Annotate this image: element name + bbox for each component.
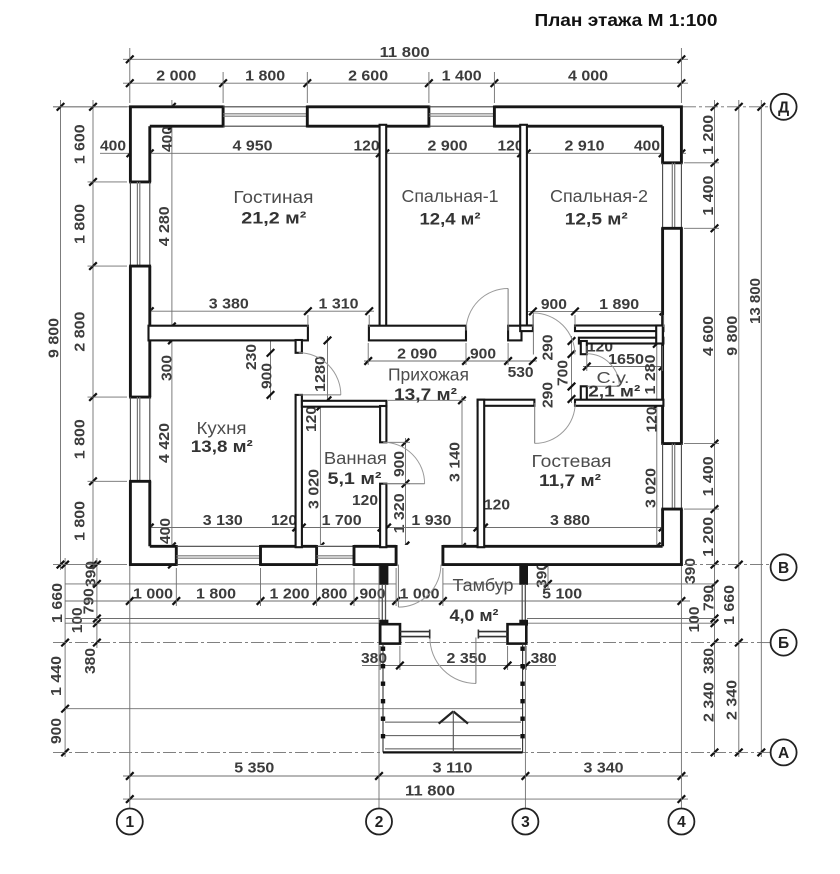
dimension column left below V 390/790/100/380 <box>69 558 101 674</box>
svg-text:1 660: 1 660 <box>721 585 738 625</box>
tambur front window left <box>400 630 430 639</box>
interior wall kitchen/living (thick 300) <box>149 326 308 341</box>
label 120 WC top wall <box>587 338 613 355</box>
svg-text:1: 1 <box>125 814 134 831</box>
dimension row rooms bottom 3130/120/1700/120/1930 3880 <box>145 512 666 531</box>
svg-text:Спальная-2: Спальная-2 <box>550 186 648 206</box>
interior wall hall/bedroom1 left piece <box>369 326 466 341</box>
interior wall bedroom1/bedroom2 <box>520 125 527 327</box>
svg-text:120: 120 <box>271 512 297 529</box>
svg-text:2 600: 2 600 <box>348 68 388 85</box>
tambur right wall window <box>522 584 525 620</box>
svg-text:1 800: 1 800 <box>196 585 236 602</box>
dimension row: overall width 11 800 <box>123 44 688 63</box>
svg-text:390: 390 <box>682 558 699 584</box>
dimension row bottom overall 11800 <box>123 782 688 803</box>
svg-text:400: 400 <box>100 138 126 155</box>
dimension column WC door 290/700/290 <box>540 335 576 409</box>
svg-text:1280: 1280 <box>312 356 329 392</box>
dimension column left outer 9800 <box>46 100 65 570</box>
svg-text:12,4 м²: 12,4 м² <box>420 209 481 228</box>
svg-text:1650: 1650 <box>608 351 644 368</box>
svg-text:1 000: 1 000 <box>133 585 173 602</box>
svg-text:1 930: 1 930 <box>411 512 451 529</box>
svg-text:Гостевая: Гостевая <box>532 451 612 471</box>
room label guest <box>532 451 612 490</box>
svg-text:Прихожая: Прихожая <box>388 365 469 385</box>
dimension column bathroom height 3020 <box>306 402 325 550</box>
svg-text:400: 400 <box>157 518 174 544</box>
svg-text:230: 230 <box>243 344 260 370</box>
svg-text:1 800: 1 800 <box>71 204 88 244</box>
interior wall bathroom right lower piece <box>380 484 386 548</box>
dimension column WC height 1280 <box>642 338 661 552</box>
svg-text:11,7 м²: 11,7 м² <box>539 471 601 490</box>
svg-text:700: 700 <box>555 360 572 386</box>
svg-text:2 800: 2 800 <box>71 312 88 352</box>
porch edge dashed left <box>381 644 385 753</box>
svg-text:4 600: 4 600 <box>700 316 717 356</box>
room label kitchen <box>191 418 253 456</box>
door WC (opens into WC) <box>587 354 620 387</box>
svg-text:Д: Д <box>778 99 789 116</box>
svg-text:9 800: 9 800 <box>46 318 63 358</box>
svg-text:5 350: 5 350 <box>234 759 274 776</box>
dimension column inner left 400/4280/300/4420/400 <box>156 100 176 568</box>
axis bubble 1 <box>117 809 143 835</box>
svg-text:21,2 м²: 21,2 м² <box>241 209 306 228</box>
svg-text:12,5 м²: 12,5 м² <box>565 209 628 228</box>
dimension row bedroom2 bottom 900/1890 <box>526 296 668 315</box>
svg-text:1 800: 1 800 <box>71 501 88 541</box>
interior wall bedroom2 bottom right piece <box>575 326 663 332</box>
svg-text:4 000: 4 000 <box>568 68 608 85</box>
svg-text:900: 900 <box>259 363 276 389</box>
svg-text:2 900: 2 900 <box>428 138 468 155</box>
svg-text:400: 400 <box>159 126 176 152</box>
window W2 top 1400 <box>429 107 495 126</box>
exterior top wall segment 1 <box>129 106 223 128</box>
axis bubble D <box>771 94 797 120</box>
svg-text:1 440: 1 440 <box>48 656 65 696</box>
dimension column right inner chain 1200/1400/4600/1400/1200 and below <box>682 100 718 757</box>
svg-text:380: 380 <box>531 650 557 667</box>
interior wall bathroom right upper piece <box>380 406 386 442</box>
exterior bottom wall segment 1 <box>129 545 176 566</box>
porch edge dashed right <box>520 644 524 753</box>
interior wall kitchen right lower piece <box>296 395 302 547</box>
axis line D horizontal <box>53 106 771 108</box>
svg-text:800: 800 <box>321 585 347 602</box>
tambur right wall lower piece <box>520 620 528 625</box>
svg-text:4 950: 4 950 <box>233 138 273 155</box>
wall white underlays <box>129 105 683 566</box>
exterior bottom wall segment 3 <box>354 545 396 566</box>
svg-text:300: 300 <box>159 355 176 381</box>
tambur left wall upper piece <box>380 564 388 584</box>
exterior bottom wall segment 2 <box>261 545 317 566</box>
dimension row WC width 1650 <box>583 351 666 370</box>
exterior left wall segment 2 <box>129 266 151 397</box>
door bathroom (opens right into hall) <box>383 442 424 483</box>
svg-text:План этажа М 1:100: План этажа М 1:100 <box>535 10 718 30</box>
svg-text:120: 120 <box>352 492 378 509</box>
window W7 bottom 1800 <box>176 546 260 564</box>
dimension column kitchen door 230/900 <box>243 338 276 400</box>
exterior left wall segment 1 <box>129 106 151 182</box>
title <box>535 10 718 30</box>
svg-text:Б: Б <box>778 635 789 652</box>
tambur front window right <box>478 630 507 639</box>
axis line V horizontal <box>53 564 771 566</box>
svg-text:100: 100 <box>69 607 86 633</box>
svg-text:В: В <box>778 560 789 577</box>
door bedroom1 (opens up into bedroom) <box>466 289 508 331</box>
svg-text:1 700: 1 700 <box>322 512 362 529</box>
svg-text:3 880: 3 880 <box>550 512 590 529</box>
svg-text:4,0 м²: 4,0 м² <box>450 606 499 625</box>
svg-text:900: 900 <box>360 585 386 602</box>
dimension column tambur right 390 <box>534 558 552 590</box>
svg-text:3 020: 3 020 <box>306 469 323 509</box>
svg-text:1 400: 1 400 <box>700 176 717 216</box>
dimension row: top window chain 2000/1800/2600/1400/4000 <box>123 68 688 87</box>
door hall to tambur (opens down into tambur) <box>398 565 441 608</box>
extension lines porch posts <box>380 646 526 670</box>
svg-text:3 020: 3 020 <box>643 468 660 508</box>
dimension column right overall 13800 <box>747 100 765 757</box>
dimension column hall width 1280 <box>312 336 331 404</box>
porch corner post right <box>508 624 527 643</box>
svg-text:1 400: 1 400 <box>700 456 717 496</box>
exterior top wall segment 3 <box>494 106 682 128</box>
svg-text:4 420: 4 420 <box>156 423 173 463</box>
vertical 400 wall thickness label top-left <box>159 126 176 152</box>
extension lines WC width <box>587 346 663 371</box>
interior wall kitchen right upper piece <box>296 340 302 353</box>
interior wall guest top left piece <box>478 400 535 406</box>
interior wall guest left <box>478 400 485 548</box>
axis bubble V <box>771 554 797 580</box>
axis line 4 vertical <box>680 566 682 808</box>
svg-text:900: 900 <box>391 451 408 477</box>
svg-text:Ванная: Ванная <box>324 448 387 468</box>
entrance direction arrow <box>439 711 468 752</box>
porch corner post left <box>380 624 400 643</box>
svg-text:1 890: 1 890 <box>599 296 639 313</box>
svg-text:11 800: 11 800 <box>380 44 430 61</box>
tambur left wall lower piece <box>380 620 388 625</box>
svg-text:9 800: 9 800 <box>724 316 741 356</box>
svg-text:120: 120 <box>354 138 380 155</box>
svg-text:380: 380 <box>82 648 99 674</box>
svg-text:900: 900 <box>541 296 567 313</box>
interior wall WC top <box>579 338 664 344</box>
svg-text:2 910: 2 910 <box>565 138 605 155</box>
tambur right wall upper piece <box>520 564 528 584</box>
svg-text:Спальная-1: Спальная-1 <box>402 186 499 206</box>
svg-text:380: 380 <box>701 648 718 674</box>
door bedroom2 (opens down) <box>533 313 575 355</box>
svg-text:3: 3 <box>521 814 530 831</box>
dimension row hallway 2090/900/530 <box>364 346 537 381</box>
extension lines kitchen-wall opening to dim row <box>308 315 369 327</box>
window W8 bottom 800 <box>317 546 354 564</box>
label 120 guest room top wall <box>644 407 661 433</box>
svg-text:2 340: 2 340 <box>701 682 718 722</box>
svg-text:100: 100 <box>686 607 703 633</box>
porch steps <box>383 722 523 752</box>
svg-text:13,7 м²: 13,7 м² <box>394 385 457 404</box>
axis line 1 vertical <box>129 566 131 808</box>
svg-text:1 400: 1 400 <box>442 68 482 85</box>
svg-text:1 800: 1 800 <box>245 68 285 85</box>
axis bubble 2 <box>366 809 392 835</box>
extension lines bathroom door <box>388 442 410 483</box>
axis bubble A <box>771 739 797 765</box>
interior wall WC left upper piece <box>581 341 587 354</box>
interior wall guest/WC bottom right piece <box>575 400 663 406</box>
svg-text:1 200: 1 200 <box>270 585 310 602</box>
svg-text:5,1 м²: 5,1 м² <box>328 469 382 488</box>
dimension row bottom axes 5350/3110/3340 <box>123 759 688 779</box>
svg-text:2 000: 2 000 <box>156 68 196 85</box>
svg-text:3 140: 3 140 <box>447 442 464 482</box>
extension lines hall doors to dim row <box>368 343 508 365</box>
plinth edge line below wall <box>65 583 716 585</box>
exterior right wall segment 3 <box>661 509 682 566</box>
svg-text:900: 900 <box>470 346 496 363</box>
exterior left wall segment 3 <box>129 481 151 566</box>
dimension column right 9800/1660/2340 <box>721 100 743 757</box>
svg-text:13,8 м²: 13,8 м² <box>191 437 253 456</box>
window W4 left 1800 <box>130 397 149 481</box>
interior wall bathroom top <box>302 401 387 407</box>
dimension column left chain 1600/1800/2800/1800/1800 <box>71 100 97 572</box>
svg-text:120: 120 <box>484 497 510 514</box>
room label bedroom2 <box>550 186 648 229</box>
dimension column bathroom door 900/1320 <box>391 438 410 550</box>
svg-text:2 340: 2 340 <box>724 680 741 720</box>
svg-text:Гостиная: Гостиная <box>233 187 313 207</box>
svg-text:1 310: 1 310 <box>319 296 359 313</box>
window W1 top 1800 <box>223 107 307 126</box>
svg-text:290: 290 <box>540 335 557 361</box>
label 120 guest room left wall <box>484 497 510 514</box>
interior wall bedroom2 bottom left piece <box>520 326 533 332</box>
extension lines right of wall <box>684 163 719 509</box>
interior wall living/bedroom1 <box>380 125 387 327</box>
exterior bottom wall segment 4 <box>443 545 683 566</box>
svg-text:3 110: 3 110 <box>433 759 473 776</box>
svg-text:А: А <box>778 745 789 762</box>
extension lines below bottom wall <box>176 568 443 606</box>
svg-text:Тамбур: Тамбур <box>453 575 514 595</box>
svg-text:1 200: 1 200 <box>700 517 717 557</box>
svg-text:3 340: 3 340 <box>584 759 624 776</box>
svg-text:530: 530 <box>508 364 534 381</box>
svg-text:2 090: 2 090 <box>397 346 437 363</box>
exterior top wall segment 2 <box>307 106 429 128</box>
svg-text:3 130: 3 130 <box>203 512 243 529</box>
exterior right wall segment 2 <box>661 228 682 443</box>
terrace edge line <box>65 708 523 710</box>
svg-text:Кухня: Кухня <box>197 418 247 438</box>
dimension row kitchen top 3380/1310 <box>145 296 374 315</box>
room label bathroom <box>324 448 387 488</box>
label 120 bathroom left wall <box>303 406 320 432</box>
svg-text:1 660: 1 660 <box>49 583 66 623</box>
axis bubble 3 <box>512 809 538 835</box>
svg-text:3 380: 3 380 <box>209 296 249 313</box>
svg-text:1 200: 1 200 <box>700 115 717 155</box>
exterior right wall segment 1 <box>661 106 682 163</box>
svg-text:120: 120 <box>644 407 661 433</box>
svg-text:13 800: 13 800 <box>747 278 764 324</box>
extension lines above top wall <box>130 48 682 103</box>
window W6 right 1400 <box>663 444 682 510</box>
svg-text:4: 4 <box>677 814 686 831</box>
door guest room (opens down) <box>535 403 576 444</box>
dimension column left outer lower 1660/1440/900 <box>48 558 69 757</box>
svg-text:1 600: 1 600 <box>71 124 88 164</box>
room label hall <box>388 365 469 405</box>
svg-text:1 800: 1 800 <box>71 419 88 459</box>
axis bubble B <box>771 630 797 656</box>
axis line 3 vertical <box>524 566 526 808</box>
door kitchen (opens right into hall) <box>299 353 341 395</box>
interior wall hall/bedroom1 right piece <box>508 326 521 341</box>
svg-text:790: 790 <box>701 585 718 611</box>
axis line B horizontal <box>53 642 771 644</box>
extension line hall top for 3140 <box>388 399 466 401</box>
tambur left wall window <box>382 584 385 620</box>
dimension column hall height 3140 <box>447 396 466 551</box>
axis bubble 4 <box>668 809 694 835</box>
dimension row: inner top 400/4950/120/2900/120/2910/400 <box>100 138 686 157</box>
svg-text:900: 900 <box>48 718 65 744</box>
svg-text:120: 120 <box>303 406 320 432</box>
dimension row porch 2350/380 <box>361 650 557 669</box>
room label living <box>233 187 313 228</box>
room label tambur <box>450 575 514 625</box>
room label bedroom1 <box>402 186 499 228</box>
dimension row bottom windows 1000/1800/1200/800/900/1000/5100 <box>65 585 690 604</box>
window W3 left 1800 <box>130 182 149 266</box>
room label WC <box>588 370 640 401</box>
svg-text:2: 2 <box>375 814 384 831</box>
axis line A horizontal <box>53 751 771 753</box>
interior wall WC left lower piece <box>581 386 587 400</box>
wall connector right of WC <box>656 326 663 344</box>
svg-text:1 280: 1 280 <box>642 355 659 395</box>
blind area edge lines <box>65 619 716 624</box>
extension lines left of wall <box>53 107 127 482</box>
svg-text:11 800: 11 800 <box>405 782 455 799</box>
svg-text:290: 290 <box>540 382 557 408</box>
door entrance (opens down outward) <box>430 638 476 684</box>
svg-text:4 280: 4 280 <box>156 206 173 246</box>
label 120 bathroom right wall <box>352 492 378 509</box>
extension lines bedroom2 wall to dim row <box>533 315 664 327</box>
axis line 2 vertical <box>378 566 380 808</box>
svg-text:400: 400 <box>634 138 660 155</box>
svg-text:2 350: 2 350 <box>447 650 487 667</box>
window W5 right 1400 <box>663 163 682 229</box>
svg-text:2,1 м²: 2,1 м² <box>588 384 640 401</box>
